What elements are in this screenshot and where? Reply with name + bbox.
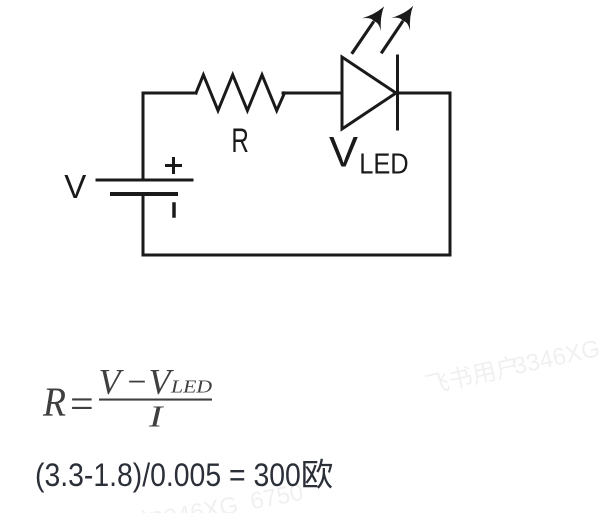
svg-text:LED: LED — [170, 377, 213, 397]
svg-text:(3.3-1.8)/0.005 = 300: (3.3-1.8)/0.005 = 300 — [35, 457, 301, 493]
battery V short negative plate — [112, 192, 176, 196]
svg-text:R: R — [42, 378, 66, 424]
wire left side upper from top corner to battery — [142, 93, 145, 179]
wire LED cathode to top-right corner and down right side — [398, 93, 451, 255]
LED cathode bar — [396, 56, 399, 129]
wire top-left horizontal — [143, 92, 196, 95]
svg-text:R: R — [231, 122, 249, 160]
wire resistor to LED anode — [283, 92, 342, 95]
watermark instance 2 bottom: 飞书用户3346XG 6750 — [62, 479, 305, 518]
formula R = (V-V_LED)/I — [42, 362, 212, 434]
LED light arrow 2 shaft — [380, 20, 404, 54]
wire bottom — [143, 254, 450, 257]
LED light arrow 2 head — [391, 6, 413, 31]
watermark instance 1 top-right: 飞书用户3346XG — [424, 335, 602, 400]
battery minus tick — [172, 204, 176, 216]
text ou char (ohm) — [303, 459, 332, 489]
LED light arrow 1 head — [362, 6, 384, 31]
LED light arrow 1 shaft — [350, 21, 375, 55]
svg-text:=: = — [70, 382, 94, 428]
svg-text:3346XG: 3346XG — [511, 335, 603, 380]
svg-text:−: − — [128, 362, 147, 402]
svg-text:V: V — [99, 362, 125, 402]
svg-text:I: I — [148, 399, 165, 434]
svg-text:3346XG: 3346XG — [149, 491, 241, 513]
resistor R zigzag — [196, 75, 285, 111]
wire left side lower from battery to bottom corner — [142, 196, 145, 255]
svg-text:V: V — [329, 129, 358, 177]
battery V long positive plate — [97, 179, 192, 182]
svg-text:V: V — [64, 168, 86, 205]
svg-text:LED: LED — [359, 149, 409, 181]
battery plus sign — [167, 164, 181, 167]
LED D1 triangle — [342, 57, 396, 129]
formula fraction bar — [99, 399, 212, 401]
